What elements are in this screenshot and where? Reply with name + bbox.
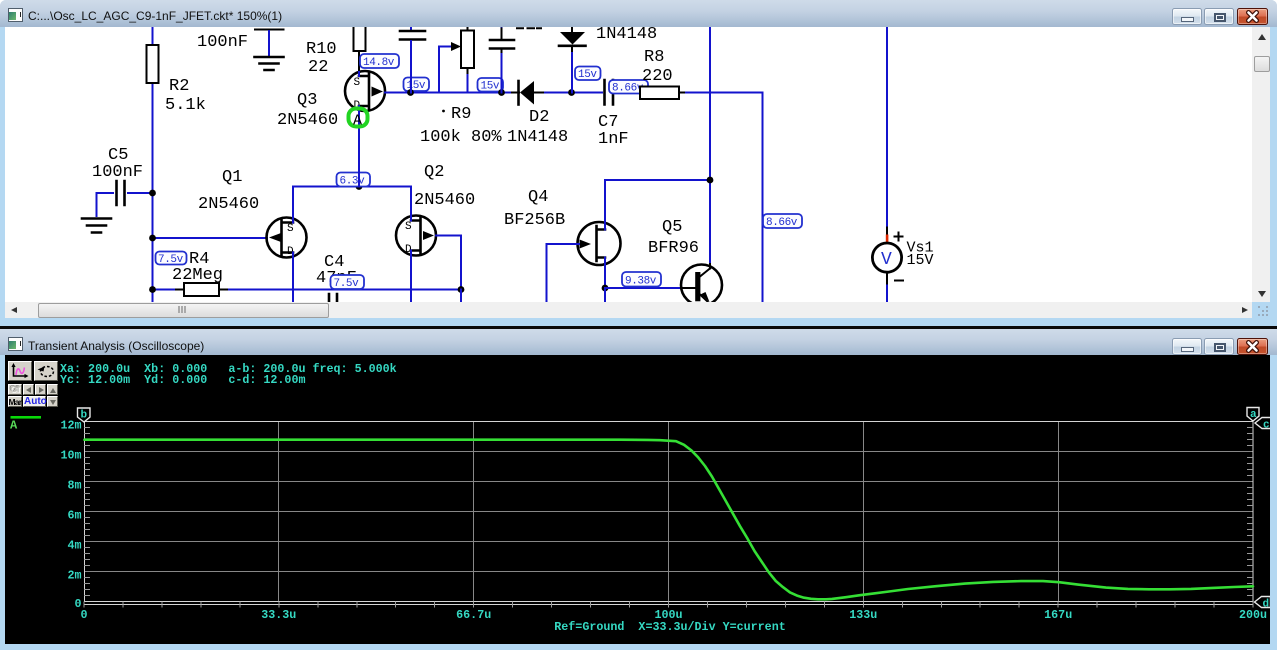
svg-text:2m: 2m — [67, 568, 81, 582]
wire Q1 gate — [149, 235, 267, 242]
svg-text:6m: 6m — [67, 508, 81, 522]
label 15v (cap1) — [404, 78, 430, 93]
schematic white client area — [5, 27, 1252, 302]
resistor R10 — [306, 24, 366, 77]
toolbar button: right arrow — [35, 384, 46, 395]
label 8.66v (right wire) — [763, 214, 802, 229]
svg-text:133u: 133u — [849, 608, 877, 622]
svg-text:14.8v: 14.8v — [363, 57, 395, 69]
svg-text:6.3v: 6.3v — [340, 176, 366, 188]
svg-text:S: S — [287, 223, 294, 235]
node junction bus right — [458, 286, 465, 302]
capacitor C (top, x=411) — [400, 27, 425, 93]
svg-text:Q3: Q3 — [297, 91, 317, 110]
y minor ticks right — [1247, 428, 1253, 596]
wire node-A horizontal (6.3v net) — [293, 183, 411, 190]
node A marker — [349, 109, 368, 130]
schematic drawing SVG — [5, 27, 1252, 302]
svg-text:10m: 10m — [60, 448, 81, 462]
svg-text:Ref=Ground X=33.3u/Div Y=curr: Ref=Ground X=33.3u/Div Y=current — [554, 620, 785, 634]
voltage source Vs1 — [872, 27, 933, 302]
svg-text:7.5v: 7.5v — [158, 254, 184, 266]
svg-text:100k 80%: 100k 80% — [420, 128, 502, 147]
svg-text:66.7u: 66.7u — [456, 608, 491, 622]
resistor R4 — [149, 250, 461, 296]
capacitor C5 — [92, 146, 153, 205]
svg-text:7.5v: 7.5v — [334, 278, 360, 290]
vertical scrollbar window1 — [1252, 27, 1270, 302]
svg-text:A: A — [353, 113, 362, 130]
waveform curve — [85, 440, 1254, 600]
transistor Q1 2N5460 — [198, 168, 307, 258]
stray dot mark — [442, 110, 445, 113]
node junction cap2 — [498, 89, 505, 96]
svg-text:BFR96: BFR96 — [648, 239, 699, 258]
wire Q4 gate — [547, 244, 580, 302]
svg-text:D2: D2 — [529, 108, 549, 127]
horizontal scrollbar window1 — [5, 302, 1252, 318]
label 14.8v — [360, 54, 399, 69]
scope header text row1 — [60, 362, 397, 376]
capacitor C6 top (100nF to ground) — [197, 30, 284, 57]
marker b — [78, 408, 91, 422]
svg-text:d: d — [1263, 599, 1270, 611]
label 15v (D1) — [575, 67, 601, 82]
wire Q4 drain to x710 — [605, 177, 713, 184]
size grip — [1258, 306, 1260, 308]
label 7.5v (left) — [156, 252, 187, 267]
svg-text:Q4: Q4 — [528, 188, 548, 207]
toolbar button: restart — [34, 361, 58, 381]
svg-text:Q2: Q2 — [424, 163, 444, 182]
toolbar button: scope — [8, 361, 32, 381]
svg-text:2N5460: 2N5460 — [414, 191, 475, 210]
svg-text:15V: 15V — [907, 252, 934, 269]
black scope panel — [5, 355, 1270, 644]
black separator between windows — [0, 326, 1277, 330]
wire C5 to ground — [96, 193, 98, 216]
scope SVG — [5, 355, 1270, 643]
node junction C5/main — [149, 190, 156, 197]
toolbar button: up arrow — [47, 384, 58, 395]
svg-text:A: A — [10, 419, 18, 433]
legend waveform A — [10, 416, 41, 433]
svg-text:33.3u: 33.3u — [261, 608, 296, 622]
wire: main left vertical (R2 branch) — [152, 27, 154, 302]
svg-text:c: c — [1263, 420, 1270, 432]
window2 buttons — [1172, 338, 1202, 355]
wire main vertical x=710 — [709, 27, 711, 264]
svg-text:5.1k: 5.1k — [165, 96, 206, 115]
footer label — [554, 620, 785, 634]
ground (C5) — [82, 219, 111, 233]
x minor ticks bottom — [84, 602, 1253, 608]
svg-text:2N5460: 2N5460 — [198, 195, 259, 214]
x axis labels — [80, 608, 1267, 622]
node junction D1 — [568, 89, 575, 96]
svg-text:8m: 8m — [67, 478, 81, 492]
svg-text:2N5460: 2N5460 — [277, 111, 338, 130]
clipped text fragment top — [517, 27, 541, 29]
svg-text:Q1: Q1 — [222, 168, 242, 187]
wire Q3 drain down through node A — [358, 106, 360, 187]
svg-text:Yc: 12.00m Yd: 0.000 c-d: 1: Yc: 12.00m Yd: 0.000 c-d: 12.00m — [60, 373, 305, 387]
svg-text:4m: 4m — [67, 538, 81, 552]
label R2 value — [165, 77, 206, 115]
toolbar button: left arrow — [23, 384, 34, 395]
svg-text:BF256B: BF256B — [504, 211, 565, 230]
diode D1 1N4148 (top) — [559, 25, 657, 93]
svg-text:Q5: Q5 — [662, 218, 682, 237]
wire Q2 drain down — [410, 251, 412, 303]
wire Q2 source up — [410, 187, 412, 221]
node junction Q4 source / Q5 base — [602, 285, 683, 302]
svg-text:12m: 12m — [60, 418, 81, 432]
svg-text:1N4148: 1N4148 — [596, 27, 657, 44]
transistor Q5 BFR96 — [648, 218, 722, 306]
label 7.5v (C4) — [331, 275, 365, 290]
capacitor C (top, x=501) — [490, 27, 514, 93]
svg-text:0: 0 — [80, 608, 87, 622]
x grid major lines — [279, 422, 1059, 602]
label 8.66v (C7) — [609, 80, 648, 95]
y grid major lines — [84, 452, 1253, 572]
ground (top) — [255, 57, 284, 70]
window1 icon — [8, 8, 23, 22]
y axis labels — [60, 418, 81, 611]
toolbar button: Man — [8, 396, 23, 407]
marker c — [1255, 418, 1271, 432]
capacitor C4 — [316, 253, 357, 302]
scope header text row2 — [60, 373, 305, 387]
label 6.3v — [337, 173, 371, 188]
wire Q1 source up — [292, 187, 294, 223]
svg-text:R8: R8 — [644, 48, 664, 67]
transistor Q2 2N5460 — [396, 163, 475, 256]
toolbar button: Off — [8, 384, 23, 395]
svg-text:167u: 167u — [1044, 608, 1072, 622]
resistor R8 — [640, 48, 763, 302]
wire Q3 gate to bus 15v — [385, 92, 512, 94]
diode D2 1N4148 — [507, 81, 602, 147]
resistor R2 — [147, 45, 159, 83]
wire Q1 drain down — [292, 253, 294, 303]
svg-text:100nF: 100nF — [197, 33, 248, 52]
svg-text:V: V — [881, 250, 892, 270]
svg-text:100nF: 100nF — [92, 163, 143, 182]
svg-text:S: S — [405, 221, 412, 233]
window1 title — [28, 9, 282, 23]
capacitor C7 — [598, 80, 640, 149]
label 15v (cap2) — [478, 78, 504, 93]
transistor Q3 2N5460 — [277, 71, 385, 130]
svg-text:R9: R9 — [451, 105, 471, 124]
wire Q2 gate to bus — [436, 236, 461, 290]
window2 icon — [8, 337, 23, 351]
toolbar button: Auto — [23, 396, 46, 407]
svg-text:15v: 15v — [481, 81, 500, 93]
wire Q3 source up — [358, 72, 360, 76]
marker a — [1247, 408, 1259, 422]
svg-text:a: a — [1250, 409, 1257, 421]
svg-text:S: S — [354, 77, 361, 89]
svg-text:15v: 15v — [578, 69, 597, 81]
svg-text:1nF: 1nF — [598, 130, 629, 149]
potentiometer R9 — [420, 27, 502, 147]
svg-text:R10: R10 — [306, 40, 337, 59]
node junction cap1 — [407, 89, 414, 96]
svg-text:b: b — [81, 410, 88, 422]
plot frame — [84, 422, 1253, 605]
transistor Q4 BF256B — [504, 180, 621, 288]
svg-text:22: 22 — [308, 58, 328, 77]
svg-text:220: 220 — [642, 67, 673, 86]
window1 buttons — [1172, 8, 1202, 25]
svg-text:9.38v: 9.38v — [625, 276, 657, 288]
svg-text:R2: R2 — [169, 77, 189, 96]
svg-text:1N4148: 1N4148 — [507, 128, 568, 147]
label 9.38v — [622, 272, 661, 288]
svg-text:8.66v: 8.66v — [766, 217, 798, 229]
toolbar button: down arrow — [47, 396, 58, 407]
y minor ticks left — [84, 428, 90, 596]
marker d — [1255, 597, 1271, 611]
